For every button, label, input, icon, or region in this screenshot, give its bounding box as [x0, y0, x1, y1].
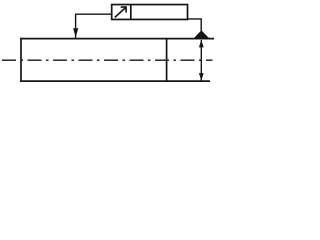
dimension double arrow (vertical, across shaft)	[200, 40, 202, 81]
leader from frame right to datum triangle	[188, 19, 202, 31]
shaft step line (internal vertical)	[166, 39, 168, 82]
leader line from frame left to shaft	[76, 14, 112, 38]
frame cell divider	[130, 5, 132, 20]
shaft outline: top edge	[20, 38, 214, 40]
circular runout symbol (open arrowhead)	[121, 7, 126, 12]
double arrow: upper arrowhead	[199, 40, 204, 48]
shaft outline: bottom edge	[20, 80, 210, 82]
shaft outline: left edge	[20, 38, 22, 82]
datum triangle (filled, base on shaft surface)	[194, 30, 210, 38]
circular runout symbol (arrow shaft)	[115, 7, 126, 17]
leader arrowhead (points down at shaft surface)	[73, 28, 78, 37]
double arrow: lower arrowhead	[199, 73, 204, 81]
centerline (dash-dot axis)	[2, 59, 213, 61]
feature control frame U1	[112, 5, 188, 20]
